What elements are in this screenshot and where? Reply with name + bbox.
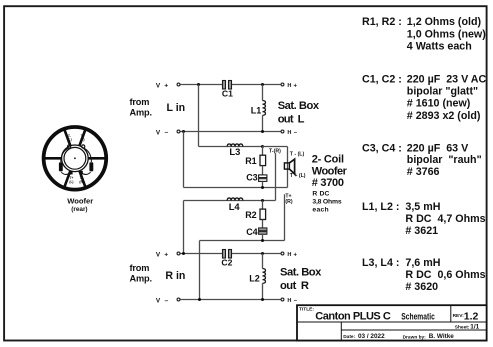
wire B to speaker: [263, 146, 288, 148]
woofer outer basket ring: [44, 127, 107, 190]
svg-text:+: +: [294, 83, 298, 89]
node V+ L junction: [197, 83, 200, 86]
svg-text:(rear): (rear): [71, 206, 87, 213]
terminal H+ R: [281, 252, 284, 255]
woofer lead wire bottom-right: [81, 172, 90, 174]
terminal H+ L: [281, 83, 284, 86]
svg-text:# 3766: # 3766: [407, 166, 440, 178]
wire return rail2: [200, 240, 285, 242]
svg-text:4 Watts each: 4 Watts each: [407, 41, 472, 53]
capacitor C2: [223, 250, 226, 259]
wire V+ L top rail: [180, 84, 222, 86]
svg-text:C2: C2: [221, 257, 232, 267]
terminal H- R: [281, 298, 284, 301]
woofer side clamp right: [89, 162, 93, 171]
svg-text:V: V: [156, 298, 161, 305]
capacitor C4: [259, 228, 267, 231]
svg-text:H: H: [287, 252, 291, 258]
svg-text:(L): (L): [69, 180, 73, 184]
svg-text:–: –: [165, 129, 169, 136]
svg-text:# 2893 x2 (old): # 2893 x2 (old): [407, 110, 481, 122]
svg-text:H: H: [287, 130, 291, 136]
svg-text:220 µF 63 V: 220 µF 63 V: [407, 143, 469, 155]
capacitor C1: [223, 81, 226, 90]
node L2 bottom junction: [261, 298, 264, 301]
title block frame: [297, 305, 487, 340]
svg-text:(R): (R): [285, 199, 292, 205]
svg-text:R1, R2 :: R1, R2 :: [362, 16, 402, 28]
resistor R2: [262, 201, 264, 210]
title block divider horizontal 2: [341, 329, 486, 331]
svg-text:# 1610 (new): # 1610 (new): [407, 98, 471, 110]
svg-text:H: H: [287, 298, 291, 304]
svg-text:R1: R1: [245, 156, 257, 166]
svg-text:C3: C3: [246, 173, 258, 183]
woofer lead wire top-left: [61, 148, 69, 162]
node B after L3: [261, 145, 264, 148]
svg-text:Canton PLUS C: Canton PLUS C: [315, 311, 391, 323]
svg-text:L1, L2 :: L1, L2 :: [362, 201, 399, 213]
terminal V+ R: [177, 252, 180, 255]
woofer terminal lug top-left: [68, 145, 71, 148]
svg-text:3,8 Ohms: 3,8 Ohms: [312, 199, 341, 206]
terminal V- L: [177, 130, 180, 133]
node V- R junction: [198, 298, 201, 301]
wire T-(R) stub: [275, 153, 277, 200]
svg-text:T + (L): T + (L): [290, 173, 306, 179]
svg-text:L in: L in: [167, 102, 186, 114]
svg-text:# 3620: # 3620: [405, 281, 438, 293]
svg-text:+: +: [164, 252, 168, 259]
svg-text:Woofer: Woofer: [67, 197, 93, 206]
svg-text:T - (L): T - (L): [290, 151, 305, 157]
wire V- L rail: [180, 131, 281, 133]
svg-text:# 3621: # 3621: [405, 225, 438, 237]
wire L4 feed down to V+ R: [183, 201, 185, 254]
woofer lead wire top-right: [84, 148, 92, 162]
wire speaker vertical (coil L): [287, 147, 289, 188]
wire T+(R) stub up: [284, 194, 286, 240]
svg-text:–: –: [165, 297, 169, 304]
node L2 top junction: [261, 252, 264, 255]
speaker 2-coil woofer symbol: [284, 163, 289, 169]
svg-text:C1: C1: [222, 89, 233, 99]
woofer spoke right: [88, 157, 106, 160]
svg-text:L4: L4: [229, 201, 241, 212]
terminal H- L: [281, 130, 284, 133]
svg-text:Woofer: Woofer: [312, 165, 348, 177]
wire L3 row: [199, 146, 263, 148]
svg-text:2- Coil: 2- Coil: [312, 154, 344, 166]
svg-text:B. Witke: B. Witke: [429, 333, 455, 340]
title block divider vertical 2: [340, 322, 342, 341]
svg-text:1/1: 1/1: [470, 323, 479, 330]
svg-text:bipolar "rauh": bipolar "rauh": [407, 154, 482, 166]
svg-text:V: V: [156, 129, 161, 136]
svg-text:T-(R): T-(R): [269, 149, 281, 155]
wire C4 to rail2: [262, 234, 264, 240]
title block divider horizontal 1: [297, 321, 487, 323]
svg-text:Date:: Date:: [343, 334, 355, 340]
svg-text:out R: out R: [280, 280, 309, 292]
woofer terminal lug top-right: [82, 145, 85, 148]
svg-text:Drawn by:: Drawn by:: [403, 334, 427, 340]
inductor L2: [262, 254, 264, 269]
terminal V+ L: [177, 83, 180, 86]
woofer magnet inner circle: [64, 147, 86, 169]
woofer spoke upper-left: [64, 130, 70, 148]
woofer spoke lower-left: [64, 170, 70, 188]
svg-text:Sheet:: Sheet:: [455, 325, 470, 331]
wire V+ L feed down: [198, 85, 200, 147]
svg-text:R2: R2: [245, 210, 257, 220]
woofer spoke left: [44, 157, 62, 160]
svg-text:(R): (R): [79, 180, 83, 184]
svg-text:R DC 4,7 Ohms: R DC 4,7 Ohms: [405, 213, 485, 225]
woofer lead wire bottom-left: [61, 172, 71, 174]
svg-text:(R): (R): [80, 138, 84, 142]
svg-text:# 3700: # 3700: [312, 177, 344, 189]
node L1 top junction: [261, 83, 264, 86]
woofer solder tab bottom-right: [80, 171, 83, 175]
svg-text:220 µF 23 V AC: 220 µF 23 V AC: [407, 74, 487, 86]
svg-text:Amp.: Amp.: [130, 108, 153, 118]
woofer side clamp left: [59, 162, 63, 171]
svg-text:bipolar "glatt": bipolar "glatt": [407, 86, 478, 98]
woofer spoke upper-right: [79, 130, 85, 148]
svg-text:V: V: [156, 83, 161, 90]
svg-text:TITLE:: TITLE:: [299, 306, 314, 312]
svg-text:R in: R in: [165, 270, 185, 282]
svg-text:+: +: [164, 83, 168, 90]
svg-text:from: from: [130, 97, 150, 107]
terminal V- R: [177, 298, 180, 301]
wire V+ R rail: [180, 253, 222, 255]
node V+ R junction: [182, 252, 185, 255]
woofer center dot: [74, 157, 76, 159]
svg-text:03 / 2022: 03 / 2022: [358, 333, 385, 340]
node D after L4: [261, 199, 264, 202]
inductor L3: [227, 144, 243, 147]
svg-text:V: V: [156, 251, 161, 258]
svg-text:C4: C4: [246, 227, 258, 237]
resistor R1: [262, 147, 264, 156]
woofer magnet outer circle: [62, 145, 89, 172]
svg-text:L3: L3: [229, 146, 240, 157]
svg-text:C1, C2 :: C1, C2 :: [362, 74, 402, 86]
node rail2 junction: [261, 239, 264, 242]
wire L4 row: [184, 200, 276, 202]
svg-text:L3, L4 :: L3, L4 :: [362, 257, 399, 269]
svg-text:Schematic: Schematic: [401, 312, 435, 323]
wire C3 to rail1: [262, 181, 264, 187]
capacitor C3: [259, 175, 267, 178]
svg-text:1,2 Ohms (old): 1,2 Ohms (old): [407, 16, 482, 28]
svg-text:1.2: 1.2: [464, 311, 479, 323]
title block divider REV: [450, 305, 452, 322]
svg-text:each: each: [312, 206, 328, 213]
wire return rail1: [183, 132, 185, 188]
wire V- R rail: [180, 299, 281, 301]
wire R2 to C4: [262, 220, 264, 228]
node V- L junction: [182, 130, 185, 133]
svg-text:(L): (L): [68, 138, 72, 142]
svg-text:7,6 mH: 7,6 mH: [405, 257, 440, 269]
woofer spoke lower-right: [79, 170, 85, 188]
inductor L4: [227, 198, 243, 201]
svg-text:R DC: R DC: [312, 191, 329, 198]
svg-text:L2: L2: [249, 274, 260, 284]
wire R1 to C3: [262, 166, 264, 175]
node rail1 junction: [261, 186, 264, 189]
inductor L1: [262, 85, 264, 101]
svg-text:REV:: REV:: [453, 313, 465, 319]
svg-text:L1: L1: [251, 105, 262, 115]
node L1 bottom junction: [261, 130, 264, 133]
wire rail2 down to V- R: [199, 241, 201, 300]
svg-text:C3, C4 :: C3, C4 :: [362, 143, 402, 155]
svg-text:Sat. Box: Sat. Box: [278, 100, 320, 112]
svg-text:out L: out L: [278, 113, 305, 125]
woofer solder tab bottom-left: [70, 171, 73, 175]
svg-text:Sat. Box: Sat. Box: [280, 267, 322, 279]
svg-text:1,0 Ohms (new): 1,0 Ohms (new): [407, 28, 486, 40]
svg-text:3,5 mH: 3,5 mH: [405, 201, 440, 213]
svg-text:H: H: [287, 83, 291, 89]
svg-text:+: +: [294, 252, 298, 258]
svg-text:R DC 0,6 Ohms: R DC 0,6 Ohms: [405, 269, 485, 281]
svg-text:Amp.: Amp.: [130, 274, 153, 284]
svg-text:from: from: [130, 263, 150, 273]
